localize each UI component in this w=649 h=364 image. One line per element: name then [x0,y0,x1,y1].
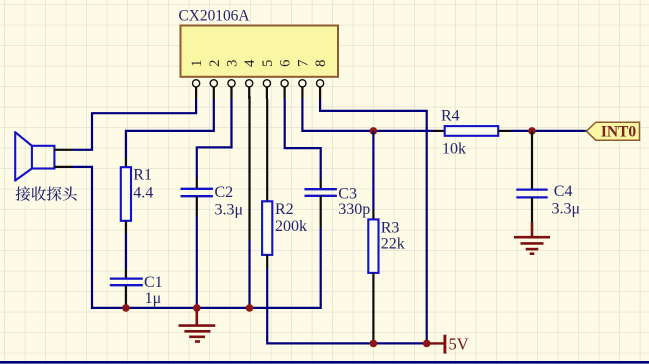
wire pin 7 to R4 and node net [302,99,433,131]
wire C2 to ground rail [196,216,198,308]
wire pin 8 to +5V rail [320,99,427,343]
svg-text:R3: R3 [381,219,400,236]
power port +5V [427,335,445,354]
label 接收探头 [16,186,77,201]
svg-text:1: 1 [189,60,205,67]
svg-text:22k: 22k [381,236,405,253]
svg-text:6: 6 [278,60,294,67]
junction R3 top [370,127,378,135]
speaker LS1 (receiver probe) [15,131,54,181]
junction R3/+5V rail [370,340,378,348]
port INT0 [586,122,639,140]
U1 pin 7 [295,60,311,99]
svg-text:C2: C2 [215,184,234,201]
speaker pin stubs [54,149,72,151]
resistor R3 [368,210,378,344]
U1 pin 2 [207,60,223,99]
capacitor C3 [305,180,337,229]
capacitor C2 [181,179,213,216]
resistor R1 [121,158,131,233]
svg-text:3.3μ: 3.3μ [215,201,244,218]
wire pin 2 to R1 [126,99,214,158]
U1 pin 5 [260,60,276,99]
wire R2 to +5V rail [267,268,427,343]
op-amp U1 CX20106A body [181,26,339,77]
U1 pin 8 [313,60,329,99]
U1 pin 4 [242,59,258,99]
svg-text:3.3μ: 3.3μ [552,201,581,218]
resistor R4 [433,126,511,136]
wire pin 6 to C3 [285,99,321,180]
svg-text:4: 4 [242,59,258,67]
svg-text:200k: 200k [275,218,307,235]
svg-text:1μ: 1μ [145,290,162,307]
svg-text:C1: C1 [144,274,163,291]
junction +5V rail [423,340,431,348]
svg-text:2: 2 [207,60,223,67]
wire speaker top to pin 1 [72,99,196,150]
svg-text:5V: 5V [449,334,469,353]
svg-text:10k: 10k [442,141,466,158]
svg-text:R2: R2 [275,201,294,218]
wire pin 3 to C2 [197,99,232,179]
wire node to C4 [531,131,533,189]
U1 pin 1 [189,60,205,99]
sheet border line [0,361,649,364]
wire R1 to C1 [125,233,127,269]
junction C1/ground rail [122,304,130,312]
ground (power gnd) left [179,308,216,342]
resistor R2 [262,201,272,268]
junction pin4/ground rail [246,304,254,312]
svg-text:8: 8 [313,60,329,67]
svg-text:R1: R1 [133,167,152,184]
wire speaker bottom to ground rail [72,167,321,308]
svg-text:R4: R4 [441,108,460,125]
wire pin 4 to ground rail [248,96,250,240]
svg-text:5: 5 [260,60,276,67]
capacitor C1 [110,269,143,308]
svg-text:INT0: INT0 [601,124,637,141]
svg-text:C4: C4 [554,183,573,200]
svg-text:C3: C3 [338,185,357,202]
svg-text:330p: 330p [338,201,370,218]
ground (power gnd) under C4 [514,222,550,254]
svg-text:4.4: 4.4 [133,184,153,201]
wire pin 5 to R2 [266,99,268,201]
svg-text:7: 7 [295,60,311,67]
junction C2/ground rail [193,304,201,312]
wire node to R3 [372,131,374,210]
junction C4 top [528,127,536,135]
svg-text:CX20106A: CX20106A [179,8,250,25]
wire R4 to INT0 [511,130,587,132]
capacitor C4 [516,190,547,222]
svg-text:3: 3 [225,60,241,67]
U1 pin 6 [278,60,294,99]
U1 pin 3 [225,60,241,99]
